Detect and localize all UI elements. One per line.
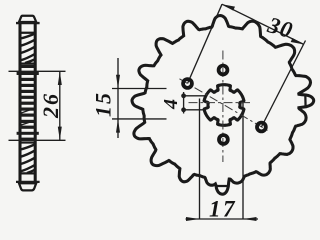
svg-text:4: 4 [160,99,182,110]
svg-text:15: 15 [91,91,116,117]
svg-text:26: 26 [38,92,63,119]
svg-text:17: 17 [209,197,237,222]
